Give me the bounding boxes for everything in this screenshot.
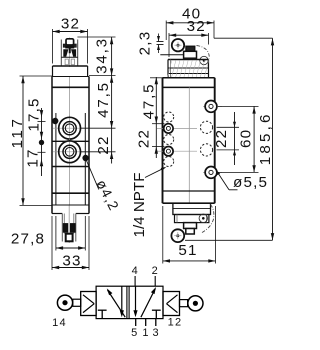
svg-text:17,5: 17,5 bbox=[26, 97, 43, 131]
svg-text:1: 1 bbox=[142, 327, 149, 339]
svg-text:5: 5 bbox=[131, 327, 138, 339]
svg-text:14: 14 bbox=[52, 317, 67, 329]
svg-text:47,5: 47,5 bbox=[141, 83, 158, 120]
svg-text:17: 17 bbox=[25, 148, 42, 167]
svg-text:1/4 NPTF: 1/4 NPTF bbox=[131, 173, 148, 238]
svg-text:2,3: 2,3 bbox=[137, 31, 154, 56]
svg-text:4: 4 bbox=[132, 265, 139, 277]
svg-text:33: 33 bbox=[62, 253, 81, 270]
svg-text:22: 22 bbox=[213, 129, 230, 148]
svg-text:117: 117 bbox=[9, 116, 26, 148]
svg-text:27,8: 27,8 bbox=[11, 231, 45, 248]
svg-text:32: 32 bbox=[187, 18, 206, 35]
svg-text:2: 2 bbox=[152, 265, 159, 277]
svg-text:3: 3 bbox=[153, 327, 160, 339]
svg-text:32: 32 bbox=[61, 15, 80, 32]
svg-text:34,3: 34,3 bbox=[94, 37, 111, 74]
svg-text:51: 51 bbox=[178, 242, 197, 259]
svg-text:ø5,5: ø5,5 bbox=[233, 174, 268, 191]
svg-text:22: 22 bbox=[136, 129, 153, 148]
svg-text:47,5: 47,5 bbox=[95, 81, 112, 118]
svg-text:185,6: 185,6 bbox=[257, 111, 274, 165]
svg-text:12: 12 bbox=[168, 317, 183, 329]
svg-text:60: 60 bbox=[238, 129, 255, 148]
